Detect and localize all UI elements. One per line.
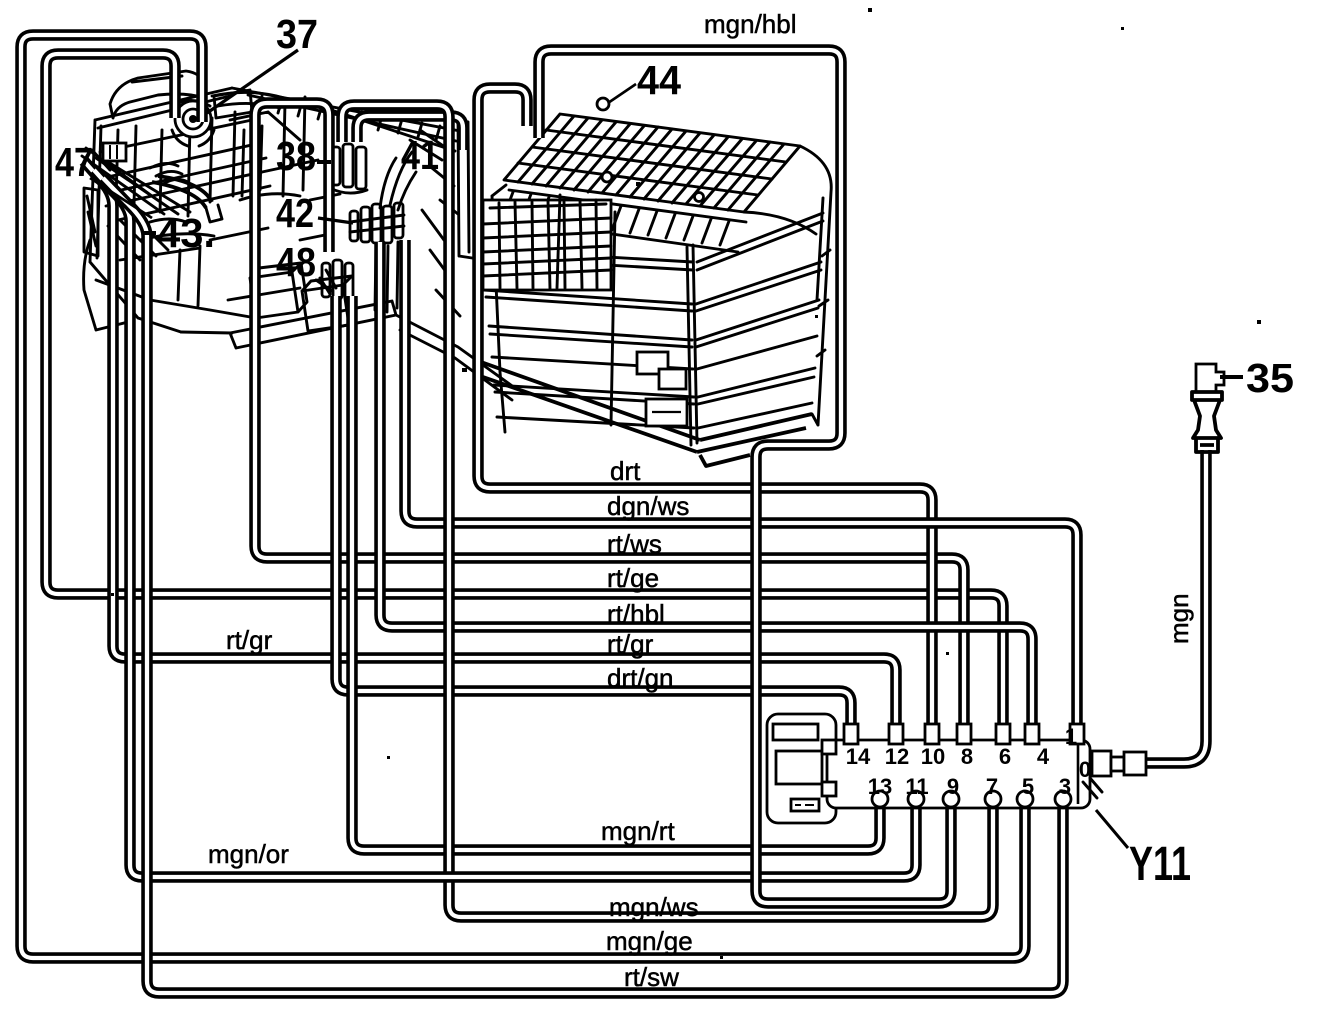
leader 44 [608, 84, 636, 103]
blower left edge [492, 185, 506, 432]
svg-text:rt/gr: rt/gr [226, 625, 273, 655]
svg-text:Y11: Y11 [1129, 838, 1191, 891]
leader 43 dash [143, 231, 156, 235]
wire drt/gn (comp 48 to pin 14) [336, 296, 851, 737]
blower body bands right face [696, 213, 823, 428]
comp 43 hose bundle diagonals [82, 148, 190, 214]
wire stub comp 38 second port [357, 116, 463, 150]
svg-text:14: 14 [846, 744, 871, 769]
svg-text:1: 1 [1065, 724, 1077, 749]
heater inner details [96, 90, 460, 318]
svg-text:drt: drt [610, 456, 641, 486]
nipple pin 4 [1025, 724, 1039, 744]
comp 48 ribbed actuator [320, 260, 353, 300]
svg-text:42: 42 [276, 190, 314, 236]
svg-text:6: 6 [999, 744, 1011, 769]
vacuum element 35 elbow fitting [1196, 364, 1224, 392]
leader 47 [90, 178, 152, 218]
control unit housing [767, 714, 836, 823]
svg-text:mgn/ge: mgn/ge [606, 926, 693, 956]
heater body outline [90, 88, 460, 332]
comp 43 curved hose to body [152, 176, 212, 208]
wire rt/ws loop (comp 48 to pin 8) [255, 103, 964, 737]
port square upper (housing to manifold) [822, 740, 836, 754]
svg-text:mgn/ws: mgn/ws [609, 892, 699, 922]
wire mgn/rt (comp 48 to pin 13) [352, 296, 880, 850]
control unit window 1 [773, 724, 818, 740]
duct lines between units [458, 118, 505, 263]
blower grille [483, 200, 611, 290]
nipple pin 1 [1070, 724, 1084, 744]
port square lower (housing to manifold) [822, 782, 836, 796]
comp 38 ribbed actuator [330, 144, 367, 193]
blower front corner edge [687, 245, 697, 445]
port circle pin 9 [943, 791, 959, 807]
comp 43 fittings [150, 163, 188, 184]
svg-text:48: 48 [276, 239, 316, 285]
manifold corner hatches [1083, 778, 1102, 798]
port circle pin 11 [908, 791, 924, 807]
svg-text:11: 11 [905, 774, 928, 799]
leader 37 [207, 50, 298, 113]
port circle pin 5 [1017, 791, 1033, 807]
heater extra slats [112, 92, 284, 220]
wire mgn (Y11 port 0 to item 35) [1146, 450, 1206, 763]
wire mgn/ws (comp 38 to pin 7) [342, 105, 993, 917]
blower small rings [602, 172, 612, 182]
svg-text:13: 13 [868, 774, 892, 799]
svg-text:10: 10 [921, 744, 945, 769]
vacuum element 35 check valve body [1192, 392, 1222, 452]
svg-text:47: 47 [55, 139, 93, 185]
comp 37 actuator [172, 100, 214, 146]
svg-text:35: 35 [1246, 355, 1294, 401]
heater left flange [84, 188, 98, 256]
blower top face grid [518, 116, 786, 210]
wire drt (blower to pin 10) [478, 88, 932, 737]
heater roof ticks [258, 96, 440, 140]
svg-text:drt/gn: drt/gn [607, 663, 674, 693]
nipple pin 14 [844, 724, 858, 744]
svg-text:43.: 43. [157, 210, 215, 256]
svg-text:38: 38 [276, 133, 316, 179]
HEATER-UNIT [82, 71, 515, 400]
heater mount cubes [250, 263, 307, 318]
comp 47 connector icon [103, 143, 126, 161]
Y11 [767, 714, 1191, 891]
ITEM35 [1164, 355, 1294, 644]
leader 48 [316, 280, 332, 291]
heater top bracket arm [110, 71, 204, 118]
control unit small box [791, 799, 819, 811]
heater lower duct [396, 315, 515, 400]
svg-text:rt/gr: rt/gr [607, 629, 654, 659]
nipple pin 12 [889, 724, 903, 744]
heater face hatch [92, 150, 168, 260]
leader 41 [398, 172, 416, 210]
heater lower-left skirt [84, 240, 128, 330]
comp 41 42 ribbed actuators [350, 203, 404, 243]
blower small brackets [637, 352, 687, 426]
port circle pin 3 [1055, 791, 1071, 807]
svg-text:rt/ge: rt/ge [607, 563, 659, 593]
svg-text:mgn/rt: mgn/rt [601, 816, 675, 846]
manifold right end divider [1077, 744, 1080, 804]
control unit window 2 [776, 751, 822, 784]
nipple pin 8 [957, 724, 971, 744]
wire dgn/ws (comp 41 to pin 1) [405, 240, 1077, 737]
manifold Y11 body [827, 740, 1090, 808]
blower base rails [481, 362, 812, 466]
comp 43 end fitting [206, 205, 222, 222]
wire rt/ge loop (comp 37 to pin 6) [46, 54, 1003, 737]
leader 44 circle [597, 98, 609, 110]
heater base plate [181, 301, 396, 348]
svg-text:41: 41 [401, 132, 439, 178]
svg-text:7: 7 [986, 774, 998, 799]
port circle pin 13 [872, 791, 888, 807]
BLOWER-UNIT [481, 114, 831, 466]
svg-text:44: 44 [637, 57, 681, 103]
svg-text:rt/sw: rt/sw [624, 962, 679, 992]
output connector to mgn hose [1092, 751, 1146, 776]
svg-text:rt/hbl: rt/hbl [607, 599, 665, 629]
svg-text:dgn/ws: dgn/ws [607, 491, 689, 521]
blower body bands left face [484, 250, 694, 428]
svg-text:mgn/or: mgn/or [208, 839, 289, 869]
svg-text:mgn: mgn [1164, 593, 1194, 644]
port circle pin 7 [985, 791, 1001, 807]
wire rt/hbl (comp 42 to pin 4) [380, 242, 1032, 737]
nipple pin 10 [925, 724, 939, 744]
svg-text:3: 3 [1059, 774, 1071, 799]
comp 41 rods [375, 152, 412, 312]
svg-text:9: 9 [947, 774, 959, 799]
wire mgn/hbl loop (blower frame to pin 9) [539, 50, 951, 903]
leader 42 dash [318, 218, 353, 223]
svg-text:12: 12 [885, 744, 909, 769]
nipple pin 6 [996, 724, 1010, 744]
svg-text:5: 5 [1022, 774, 1034, 799]
leader 38 dash [317, 160, 331, 164]
svg-text:rt/ws: rt/ws [607, 529, 662, 559]
label 35 dash [1220, 375, 1243, 379]
wire rt/gr (comp 43 to pin 12) [84, 161, 896, 737]
blower top face outline [504, 114, 800, 212]
svg-text:8: 8 [961, 744, 973, 769]
wire mgn/ge loop (comp 37 to pin 5) [21, 35, 1025, 958]
heater front panel lines [100, 97, 305, 212]
blower louvre slits [500, 190, 746, 252]
wire rt/sw (comp 43 to pin 3) [103, 178, 1063, 993]
blower center seam [557, 195, 615, 425]
Y11 leader line [1096, 810, 1128, 848]
blower right shoulder [744, 146, 831, 425]
svg-text:mgn/hbl: mgn/hbl [704, 9, 797, 39]
wire mgn/or (comp 43 to pin 11) [94, 170, 916, 877]
svg-text:4: 4 [1037, 744, 1050, 769]
